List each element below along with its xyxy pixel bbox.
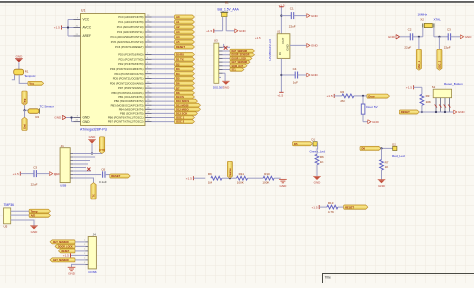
wire C2 to crystal: [413, 36, 423, 38]
led D1 Green_Led: [310, 138, 326, 154]
ground GND divider: [279, 179, 287, 187]
svg-text:D8: D8: [176, 91, 180, 95]
svg-text:U3: U3: [214, 39, 218, 43]
svg-text:A/D: A/D: [31, 214, 36, 218]
port temp top vertical: [22, 91, 27, 105]
svg-text:PB4 (MISO/PCINT4): PB4 (MISO/PCINT4): [119, 107, 144, 111]
wire port to led: [312, 143, 315, 145]
capacitor C1 22uF: [281, 6, 306, 28]
svg-text:22uF: 22uF: [31, 183, 38, 187]
wire GND bracket: [66, 116, 74, 121]
svg-text:0.1uF: 0.1uF: [99, 180, 107, 184]
svg-text:VCC: VCC: [83, 18, 90, 22]
svg-text:+1.5: +1.5: [406, 86, 412, 90]
svg-text:GND: GND: [239, 29, 247, 33]
svg-text:D6: D6: [176, 81, 180, 85]
svg-text:1M: 1M: [208, 181, 213, 185]
svg-text:PB7 (PCINT7/XTAL2/TOSC2): PB7 (PCINT7/XTAL2/TOSC2): [108, 120, 144, 124]
svg-text:AREF: AREF: [83, 34, 92, 38]
svg-text:10K: 10K: [426, 100, 431, 104]
svg-text:+1.5: +1.5: [54, 26, 60, 30]
svg-text:U5: U5: [4, 224, 8, 228]
ports D0-D7: [175, 52, 195, 90]
power port +1.5 to U1: [54, 26, 68, 30]
U3 ports: [230, 49, 255, 71]
svg-text:B1: B1: [225, 1, 229, 5]
power port +1.5 divider: [186, 176, 206, 180]
svg-text:PD0 (PCINT16/RXD): PD0 (PCINT16/RXD): [118, 53, 143, 57]
ground GND battery: [235, 29, 247, 33]
svg-text:A0: A0: [176, 15, 180, 19]
svg-text:R10: R10: [264, 172, 270, 176]
power port +1.5 R13: [311, 205, 326, 209]
ground GND regulator: [307, 43, 319, 47]
svg-text:PB2 (SS/OC1B/PCINT2): PB2 (SS/OC1B/PCINT2): [114, 99, 144, 103]
svg-text:+1.5: +1.5: [206, 29, 212, 33]
svg-text:1K: 1K: [385, 165, 389, 169]
ground GND C3: [49, 172, 61, 176]
svg-text:J1: J1: [61, 144, 65, 148]
ground GND J4: [68, 267, 76, 275]
ground GND C1: [307, 14, 319, 18]
resistor R11 100K: [237, 172, 248, 185]
wire port to led D2: [380, 147, 392, 159]
svg-text:PD5 (PCINT21/OC0B/T1): PD5 (PCINT21/OC0B/T1): [113, 77, 144, 81]
svg-text:GND: GND: [388, 35, 396, 39]
svg-text:R6: R6: [320, 155, 324, 159]
port Tempvcc: [28, 81, 44, 85]
svg-text:GND: GND: [372, 120, 380, 124]
svg-text:GND: GND: [311, 73, 319, 77]
port temp bottom vertical: [22, 117, 27, 130]
resistor R2 2M: [340, 90, 354, 103]
capacitor C4 1uF: [281, 67, 306, 84]
svg-text:GND: GND: [31, 230, 39, 234]
svg-text:22pF: 22pF: [444, 45, 451, 49]
ground GND top of R1: [15, 55, 23, 63]
svg-text:D4: D4: [176, 72, 180, 76]
ports A0-A5, RESET: [175, 15, 195, 49]
svg-text:+1.5: +1.5: [311, 205, 317, 209]
wire VCC bracket: [67, 20, 74, 37]
svg-text:ATmega328P-PU: ATmega328P-PU: [80, 128, 108, 132]
svg-text:PB6 (PCINT6/XTAL1/TOSC1): PB6 (PCINT6/XTAL1/TOSC1): [108, 116, 144, 120]
svg-text:J4: J4: [93, 233, 97, 237]
svg-text:PB1 (OC1A/PCINT1): PB1 (OC1A/PCINT1): [118, 95, 143, 99]
svg-text:LP2950ACZ-3.0: LP2950ACZ-3.0: [268, 39, 272, 61]
svg-text:R9: R9: [208, 172, 212, 176]
power port +1.5 battery: [206, 29, 214, 33]
svg-text:D10 SDCS: D10 SDCS: [176, 99, 189, 103]
thermistor TC Sensor: [28, 105, 54, 119]
svg-text:22pF: 22pF: [404, 45, 411, 49]
svg-text:Vcc: Vcc: [29, 82, 34, 86]
svg-text:GND: GND: [311, 14, 319, 18]
svg-text:TX: TX: [92, 194, 95, 197]
svg-text:GND: GND: [465, 35, 473, 39]
J1 pin stubs: [70, 154, 73, 179]
svg-text:A2: A2: [176, 25, 180, 29]
connector J4: [88, 233, 97, 275]
wire regulator GND pin: [290, 44, 307, 46]
svg-text:PB0 (PCINT0/CLKO/ICP1): PB0 (PCINT0/CLKO/ICP1): [112, 91, 144, 95]
svg-text:100K: 100K: [262, 181, 269, 185]
svg-text:D1: D1: [312, 138, 316, 142]
svg-text:+1.5: +1.5: [255, 36, 261, 40]
svg-text:+1.5: +1.5: [63, 254, 69, 258]
svg-text:D13 SCK: D13 SCK: [176, 112, 187, 116]
svg-text:GND: GND: [83, 120, 91, 124]
U3 pin wires: [219, 44, 230, 73]
svg-text:C3: C3: [33, 166, 37, 170]
resistor R6 1K: [315, 154, 324, 165]
svg-text:IN: IN: [278, 52, 282, 55]
power +1.5 label U3: [255, 36, 261, 40]
wire GND stem to pin 1: [73, 144, 102, 155]
svg-text:16MHz: 16MHz: [418, 13, 428, 17]
wires from U1 pins to ports: [152, 17, 175, 122]
svg-text:4.7K: 4.7K: [328, 210, 334, 214]
battery B1 Bat_1.5V_AAA: [218, 1, 240, 17]
svg-text:PD2 (PCINT18/INT0): PD2 (PCINT18/INT0): [118, 62, 143, 66]
wire J4 ground pin: [72, 264, 86, 267]
svg-text:C6: C6: [101, 168, 105, 172]
port GET_SENSOR: [50, 258, 75, 262]
power port +1.5 decoupling: [13, 172, 34, 176]
svg-text:PD6 (PCINT22/OC0A/AIN0): PD6 (PCINT22/OC0A/AIN0): [110, 81, 144, 85]
switch S1 Reset_Button: [432, 82, 463, 98]
no-ERC marker U3 pin 1: [224, 46, 228, 50]
port RESET (button): [399, 110, 419, 114]
svg-text:D9 CS: D9 CS: [176, 95, 184, 99]
svg-text:PC5 (ADC5/SCL/PCINT13): PC5 (ADC5/SCL/PCINT13): [111, 40, 144, 44]
wire R2 to port: [336, 95, 367, 97]
svg-text:DOOR_LOCK: DOOR_LOCK: [58, 247, 73, 249]
svg-text:OSC 1: OSC 1: [176, 116, 185, 120]
svg-text:A1: A1: [176, 20, 180, 24]
J4 pin stubs: [84, 240, 88, 265]
wire DTR row: [73, 174, 101, 176]
svg-text:PC1 (ADC1/PCINT9): PC1 (ADC1/PCINT9): [118, 20, 143, 24]
ground GND left of C2: [388, 35, 400, 39]
svg-text:Tmp: Tmp: [23, 98, 26, 104]
svg-text:A5: A5: [176, 40, 180, 44]
wire battery leads: [214, 17, 235, 31]
resistor R1 Tempvcc: [14, 69, 36, 78]
port OSC_1 vertical: [416, 49, 421, 70]
wire C3 to ground: [451, 36, 461, 38]
port DTR vertical: [99, 137, 105, 154]
wire R6 to ground: [316, 165, 318, 177]
svg-text:C1: C1: [290, 6, 294, 10]
svg-text:X2: X2: [420, 18, 424, 22]
svg-text:Vsense: Vsense: [229, 168, 232, 177]
port RXTX vertical: [91, 183, 96, 199]
wires J4 to ports: [71, 242, 86, 260]
svg-text:GND: GND: [314, 181, 322, 185]
resistor Door 5V sense: [361, 104, 378, 114]
capacitor C2 22pF: [400, 27, 413, 49]
svg-text:DHT_SENSOR: DHT_SENSOR: [53, 242, 69, 244]
svg-text:Door: Door: [368, 94, 374, 98]
svg-text:RESET: RESET: [401, 110, 410, 114]
svg-text:PB5 (SCK/PCINT5): PB5 (SCK/PCINT5): [120, 112, 144, 116]
svg-text:Gnd: Gnd: [23, 124, 26, 129]
ports D8-D13, OSC: [175, 91, 201, 124]
switch S1 pins: [435, 98, 451, 112]
svg-text:D2: D2: [392, 142, 396, 146]
capacitor C6 0.1uF: [99, 168, 110, 184]
svg-text:OSC 2: OSC 2: [176, 120, 185, 124]
svg-text:R4: R4: [36, 115, 40, 119]
svg-text:RESET: RESET: [345, 205, 354, 209]
svg-text:OUT: OUT: [281, 37, 285, 43]
svg-text:D: D: [55, 172, 57, 176]
power port +1.5 bottom of rail: [277, 92, 283, 97]
svg-text:D1 TX: D1 TX: [176, 57, 184, 61]
svg-text:D5: D5: [294, 142, 298, 146]
TMP36 pin wires: [11, 211, 34, 226]
wire temp column: [23, 105, 28, 117]
svg-text:+1.5: +1.5: [326, 94, 332, 98]
svg-text:Red_Led: Red_Led: [392, 154, 405, 158]
wire GND to R1: [18, 62, 20, 69]
svg-text:D3: D3: [176, 67, 180, 71]
port TMP out 1: [29, 209, 50, 213]
port RESET J4: [59, 249, 76, 253]
resistor R9 1M: [208, 172, 222, 185]
port RESET from DTR: [110, 174, 130, 178]
ground GND green led: [313, 176, 321, 184]
wire junction down: [362, 96, 364, 104]
resistor R10 100K: [262, 172, 274, 185]
ground GND red led: [378, 180, 386, 188]
ground GND C4: [307, 73, 319, 77]
port DOOR: [367, 94, 390, 98]
svg-text:R7: R7: [385, 160, 389, 164]
svg-text:XTAL: XTAL: [434, 18, 442, 22]
svg-text:D11 MOSI: D11 MOSI: [176, 103, 189, 107]
resistor R7 1K: [380, 160, 389, 171]
wire U3 to ground: [219, 73, 225, 81]
ground GND reset: [454, 110, 466, 114]
svg-text:Title: Title: [325, 276, 331, 280]
capacitor C3 22pF: [434, 27, 451, 49]
wire R3 to reset net: [421, 105, 423, 113]
wire R9 to R11 with tap: [222, 177, 237, 179]
wire OSC_2 stem: [438, 37, 440, 50]
svg-text:Door 5V: Door 5V: [366, 105, 378, 109]
ground GND door: [368, 120, 380, 124]
power port +1.5 top rail: [278, 3, 284, 33]
svg-text:2M: 2M: [340, 99, 345, 103]
svg-text:D12 MISO: D12 MISO: [176, 107, 189, 111]
ground GND right of C3: [460, 35, 472, 39]
resistor R13 4.7K: [327, 201, 338, 214]
svg-text:TMP36: TMP36: [4, 203, 15, 207]
svg-text:PB3 (MOSI/OC2A/PCINT3): PB3 (MOSI/OC2A/PCINT3): [111, 103, 144, 107]
svg-text:+1.5: +1.5: [277, 93, 283, 97]
svg-text:A3: A3: [176, 30, 180, 34]
power port +1.5 reset pull-up: [406, 85, 422, 94]
svg-text:TC Sensor: TC Sensor: [40, 105, 54, 109]
sensor U5 TMP36: [4, 203, 15, 228]
wire R1 to port: [19, 75, 28, 84]
wire reset net: [419, 111, 453, 113]
svg-text:U1: U1: [81, 9, 85, 13]
capacitor C3 22uF: [31, 166, 50, 187]
crystal X2 16MHz: [418, 13, 442, 28]
ground GND J1: [88, 135, 96, 144]
svg-text:R13: R13: [328, 201, 334, 205]
svg-text:R1: R1: [25, 69, 29, 73]
svg-text:D0 RX: D0 RX: [176, 53, 184, 57]
U1 left pins VCC/AVCC/AREF/GND: [74, 17, 92, 124]
title block: [322, 274, 474, 284]
led D2 Red_Led: [392, 142, 405, 158]
regulator U2 LP2950ACZ-3.0: [268, 31, 290, 61]
svg-text:AVCC: AVCC: [83, 26, 92, 30]
wire OSC_1 stem: [418, 37, 420, 50]
microcontroller U1 ATmega328P-PU: [80, 9, 145, 132]
svg-text:OSC_2: OSC_2: [438, 60, 441, 69]
svg-text:1K: 1K: [320, 160, 324, 164]
U1 right pins port C/D/B with pin numbers: [108, 15, 152, 124]
svg-text:PD4 (PCINT20/XCK/T0): PD4 (PCINT20/XCK/T0): [115, 72, 144, 76]
wire R7 to ground: [381, 170, 383, 180]
svg-text:D2: D2: [176, 62, 180, 66]
svg-text:GND: GND: [89, 135, 97, 139]
wire R13 to port: [338, 206, 344, 208]
svg-text:A4: A4: [176, 35, 180, 39]
svg-text:SCL: SCL: [232, 70, 237, 72]
ground GND U3: [222, 81, 230, 89]
svg-text:PD7 (PCINT23/AIN1): PD7 (PCINT23/AIN1): [118, 86, 144, 90]
port DHT_SENSOR: [50, 240, 75, 244]
svg-text:RESET: RESET: [111, 174, 120, 178]
wire J1 pin8 down: [73, 178, 93, 183]
svg-text:CON6: CON6: [88, 270, 97, 274]
ground GND to U1: [54, 115, 66, 119]
wire crystal right leg: [433, 28, 435, 37]
ground GND TMP36: [30, 226, 38, 234]
svg-text:PD1 (PCINT17/TXD): PD1 (PCINT17/TXD): [119, 57, 144, 61]
svg-text:C3: C3: [447, 27, 451, 31]
svg-text:GND: GND: [458, 110, 466, 114]
wire led to R6: [316, 144, 319, 155]
svg-text:PC3 (ADC3/PCINT11): PC3 (ADC3/PCINT11): [117, 30, 144, 34]
svg-text:R3: R3: [426, 94, 430, 98]
svg-text:GND: GND: [16, 55, 24, 59]
svg-text:DTR: DTR: [100, 148, 105, 152]
port RESET pull: [344, 205, 368, 209]
svg-text:D7: D7: [176, 86, 180, 90]
svg-text:C4: C4: [293, 67, 297, 71]
port OSC_2 vertical: [437, 49, 442, 70]
port TMP out 2: [29, 213, 50, 217]
svg-text:PC4 (ADC4/SDA/PCINT12): PC4 (ADC4/SDA/PCINT12): [110, 35, 143, 39]
wire to ground: [363, 114, 368, 122]
port DOOR_LOCK: [55, 244, 75, 248]
wire R11 to R10: [248, 177, 264, 179]
svg-text:R11: R11: [239, 172, 245, 176]
wires J1 middle pins: [73, 157, 95, 171]
svg-text:D6: D6: [362, 147, 366, 151]
svg-text:+1.5: +1.5: [186, 176, 192, 180]
svg-text:PD3 (PCINT19/OC2B/INT1): PD3 (PCINT19/OC2B/INT1): [110, 67, 144, 71]
port tap vertical: [227, 161, 232, 178]
svg-text:GND: GND: [223, 85, 231, 89]
svg-text:Tempvcc: Tempvcc: [24, 74, 36, 78]
svg-text:Temp: Temp: [31, 209, 38, 213]
svg-text:GND: GND: [68, 272, 76, 276]
svg-text:100K: 100K: [237, 181, 244, 185]
wire R10 to ground: [274, 177, 281, 179]
power port +1.5 J4: [63, 253, 71, 257]
svg-text:GND: GND: [311, 44, 319, 48]
svg-text:R2: R2: [340, 90, 344, 94]
connector J1: [55, 144, 71, 188]
svg-text:PC0 (ADC0/PCINT8): PC0 (ADC0/PCINT8): [118, 15, 143, 19]
svg-text:1uF: 1uF: [293, 81, 298, 85]
power port +1.5 door divider: [326, 94, 336, 98]
svg-text:Bat_1.5V_AAA: Bat_1.5V_AAA: [218, 7, 240, 11]
wire crystal left leg: [422, 28, 424, 37]
svg-text:Reset_Button: Reset_Button: [444, 82, 463, 86]
svg-text:OSC_1: OSC_1: [418, 60, 421, 69]
svg-text:GND: GND: [378, 184, 386, 188]
wire R1 left leg: [12, 75, 15, 80]
no-ERC marker J1: [87, 168, 90, 171]
svg-text:PC2 (ADC2/PCINT10): PC2 (ADC2/PCINT10): [117, 25, 144, 29]
svg-text:C2: C2: [408, 27, 412, 31]
svg-text:RESET: RESET: [176, 45, 185, 49]
svg-text:D5: D5: [176, 77, 180, 81]
port Red LED net: [360, 146, 381, 150]
port Green LED net: [293, 142, 313, 146]
svg-text:GET_SENSOR: GET_SENSOR: [53, 260, 69, 262]
svg-text:PC6 (PCINT14/RESET): PC6 (PCINT14/RESET): [115, 45, 144, 49]
svg-text:GND: GND: [279, 184, 287, 188]
svg-text:22uF: 22uF: [289, 25, 296, 29]
svg-text:S1: S1: [432, 85, 436, 89]
resistor R3 10K: [420, 94, 431, 105]
svg-text:GND: GND: [54, 116, 62, 120]
wire regulator IN rail: [280, 58, 282, 92]
connector U3: [213, 39, 224, 90]
svg-text:+1.5: +1.5: [13, 172, 19, 176]
svg-text:GND: GND: [285, 44, 289, 50]
svg-text:USB: USB: [60, 184, 66, 188]
